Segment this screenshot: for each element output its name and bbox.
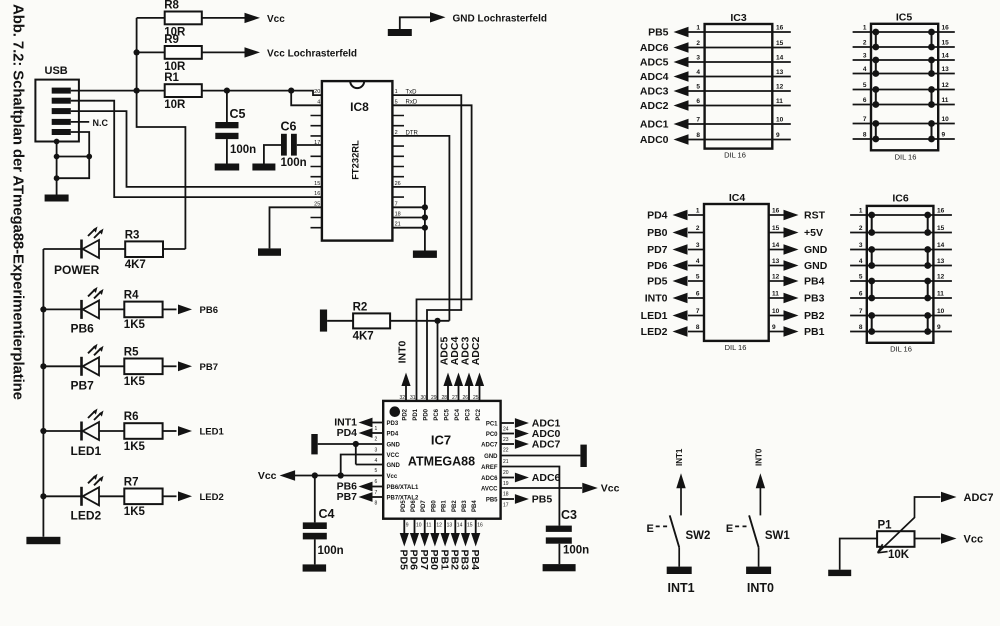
svg-text:11: 11 bbox=[772, 291, 779, 298]
svg-text:PC6: PC6 bbox=[434, 408, 440, 420]
capacitor C6 bbox=[264, 120, 322, 169]
connector IC6 bbox=[850, 193, 952, 354]
svg-text:PB3: PB3 bbox=[462, 500, 468, 512]
wire R4 to PB6 arrow bbox=[163, 308, 177, 310]
ground C4 bbox=[303, 564, 327, 571]
svg-text:INT0: INT0 bbox=[397, 340, 409, 363]
svg-text:PB2: PB2 bbox=[804, 310, 825, 322]
resistor R3 bbox=[125, 229, 163, 271]
Vcc Lochrasterfeld arrow bbox=[245, 47, 261, 57]
IC7 bottom pin names/numbers bbox=[401, 500, 483, 529]
junction USB gnd b bbox=[54, 154, 60, 160]
svg-text:RST: RST bbox=[804, 210, 826, 222]
svg-text:ADC6: ADC6 bbox=[481, 476, 498, 482]
svg-text:INT1: INT1 bbox=[675, 448, 684, 466]
svg-text:PD5: PD5 bbox=[401, 500, 407, 512]
svg-text:PB5: PB5 bbox=[648, 27, 669, 39]
svg-text:3: 3 bbox=[696, 242, 700, 249]
svg-text:Abb. 7.2: Schaltplan der ATmeg: Abb. 7.2: Schaltplan der ATmega88-Experi… bbox=[10, 4, 27, 400]
node PB5 arrow right bbox=[501, 494, 553, 506]
svg-text:15: 15 bbox=[942, 40, 950, 47]
node PB4 arrow down bbox=[469, 519, 481, 570]
svg-text:PC4: PC4 bbox=[455, 408, 461, 420]
resistor R9 bbox=[137, 34, 357, 73]
wire bus to PB6 led bbox=[43, 308, 81, 310]
svg-text:ADC5: ADC5 bbox=[640, 57, 669, 69]
wire R7 to LED2 arrow bbox=[163, 495, 177, 497]
wire R3 to Vcc bus bbox=[163, 248, 185, 250]
node PB3 arrow down bbox=[459, 519, 471, 570]
svg-text:13: 13 bbox=[772, 258, 780, 265]
wire USB 5V to R1 bbox=[71, 90, 165, 92]
node PD6 arrow down bbox=[408, 519, 420, 570]
node PD4 arrow bbox=[337, 427, 384, 439]
svg-text:PD5: PD5 bbox=[398, 550, 410, 571]
svg-text:PD1: PD1 bbox=[413, 408, 419, 420]
svg-text:GND: GND bbox=[387, 443, 401, 449]
wire Vcc to IC8 pin4 bbox=[291, 91, 322, 106]
node PD7 arrow down bbox=[418, 519, 430, 570]
svg-text:ADC6: ADC6 bbox=[640, 42, 669, 54]
node PB0 arrow down bbox=[428, 519, 440, 570]
node ADC5 arrow up bbox=[439, 337, 453, 401]
svg-text:3: 3 bbox=[863, 53, 867, 60]
svg-text:27: 27 bbox=[452, 395, 458, 401]
svg-text:LED2: LED2 bbox=[200, 492, 224, 503]
svg-text:1K5: 1K5 bbox=[124, 319, 146, 331]
svg-text:Vcc: Vcc bbox=[258, 470, 277, 482]
svg-text:PB1: PB1 bbox=[438, 550, 450, 571]
svg-text:ADC1: ADC1 bbox=[640, 119, 669, 131]
svg-text:PB3: PB3 bbox=[804, 293, 825, 305]
svg-text:PD7: PD7 bbox=[647, 244, 668, 256]
Vcc arrow bbox=[245, 13, 261, 23]
svg-text:VCC: VCC bbox=[387, 453, 400, 459]
svg-text:4: 4 bbox=[696, 69, 700, 76]
wire AREF to C3 bbox=[501, 467, 560, 526]
svg-text:17: 17 bbox=[314, 140, 320, 146]
svg-text:15: 15 bbox=[937, 225, 945, 232]
svg-text:15: 15 bbox=[467, 523, 473, 529]
svg-text:9: 9 bbox=[937, 324, 941, 331]
node ADC6 arrow right bbox=[501, 472, 561, 484]
svg-text:22: 22 bbox=[503, 447, 509, 453]
svg-text:ADC2: ADC2 bbox=[470, 337, 482, 366]
svg-text:9: 9 bbox=[772, 324, 776, 331]
svg-text:PC2: PC2 bbox=[476, 408, 482, 420]
node Vcc arrow at P1 bbox=[915, 533, 984, 545]
resistor R2 bbox=[353, 301, 391, 342]
svg-text:10R: 10R bbox=[164, 61, 186, 73]
svg-text:10: 10 bbox=[942, 116, 950, 123]
svg-text:11: 11 bbox=[426, 523, 431, 529]
svg-text:5: 5 bbox=[696, 274, 700, 281]
svg-text:ADC3: ADC3 bbox=[640, 86, 669, 98]
svg-text:12: 12 bbox=[776, 84, 784, 91]
svg-text:8: 8 bbox=[375, 500, 378, 506]
junction bus/PB7 bbox=[40, 363, 46, 369]
node ADC7 arrow bbox=[941, 492, 993, 504]
svg-text:PB4: PB4 bbox=[472, 500, 478, 512]
svg-text:5: 5 bbox=[375, 468, 378, 474]
svg-text:100n: 100n bbox=[230, 144, 256, 156]
junction Vcc/C4 bbox=[312, 472, 318, 478]
wire bus to PB7 led bbox=[43, 365, 81, 367]
node PB1 arrow down bbox=[438, 519, 450, 570]
svg-text:R2: R2 bbox=[353, 301, 368, 313]
svg-text:4: 4 bbox=[375, 458, 378, 464]
wire USB D- to IC8 pin16 bbox=[71, 101, 322, 197]
svg-text:1: 1 bbox=[375, 426, 378, 432]
ground rail stub at IC7 GND bbox=[311, 434, 317, 454]
svg-text:16: 16 bbox=[477, 523, 483, 529]
svg-text:USB: USB bbox=[45, 65, 68, 77]
LED PB6 bbox=[71, 287, 104, 336]
capacitor C4 bbox=[303, 476, 344, 565]
svg-text:11: 11 bbox=[937, 291, 944, 298]
wire USB shield/GND net bbox=[57, 132, 90, 195]
svg-text:2: 2 bbox=[859, 225, 863, 232]
svg-text:R5: R5 bbox=[124, 347, 139, 359]
svg-text:PD7: PD7 bbox=[418, 550, 430, 571]
svg-text:4: 4 bbox=[859, 258, 863, 265]
connector IC4 bbox=[641, 192, 828, 352]
LED PB7 bbox=[71, 344, 104, 393]
svg-text:PB1: PB1 bbox=[442, 500, 448, 512]
svg-text:PB1: PB1 bbox=[804, 326, 825, 338]
potentiometer P1 bbox=[840, 497, 941, 570]
svg-text:PD4: PD4 bbox=[387, 432, 399, 438]
IC7 right pin names/numbers bbox=[481, 422, 509, 509]
wire USB D+ to IC8 pin15 bbox=[71, 111, 322, 187]
node ADC2 arrow up bbox=[470, 337, 484, 401]
junction reset net bbox=[434, 318, 440, 324]
svg-text:DIL 16: DIL 16 bbox=[725, 343, 747, 352]
IC8 right pin numbers bbox=[395, 89, 419, 228]
svg-text:30: 30 bbox=[420, 395, 426, 401]
svg-text:ADC0: ADC0 bbox=[640, 134, 669, 146]
svg-text:PB6: PB6 bbox=[71, 322, 95, 336]
svg-text:8: 8 bbox=[859, 324, 863, 331]
LED LED2 bbox=[71, 474, 104, 523]
svg-text:PD3: PD3 bbox=[387, 421, 399, 427]
svg-text:PB7: PB7 bbox=[71, 379, 95, 393]
node N.C bbox=[71, 118, 109, 128]
svg-text:16: 16 bbox=[937, 208, 945, 215]
node PB7 arrow bbox=[337, 491, 384, 503]
wire bus to LED1 led bbox=[43, 430, 81, 432]
wire R6 to LED1 arrow bbox=[163, 430, 177, 432]
svg-text:E: E bbox=[726, 523, 733, 535]
svg-text:LED1: LED1 bbox=[641, 310, 668, 322]
wire Vcc to IC8 pin20 bbox=[291, 91, 322, 96]
svg-text:4K7: 4K7 bbox=[125, 259, 146, 271]
svg-text:12: 12 bbox=[436, 523, 442, 529]
svg-text:LED1: LED1 bbox=[200, 427, 225, 438]
svg-text:16: 16 bbox=[776, 25, 784, 32]
svg-text:100n: 100n bbox=[563, 545, 589, 557]
LED POWER bbox=[54, 227, 104, 278]
wire POWER led to R3 bbox=[99, 248, 125, 250]
svg-text:16: 16 bbox=[314, 191, 320, 197]
wire R2 to reset net bbox=[390, 320, 449, 322]
svg-text:28: 28 bbox=[441, 395, 447, 401]
svg-text:PD6: PD6 bbox=[647, 260, 668, 272]
svg-text:10: 10 bbox=[416, 523, 422, 529]
junction USB gnd d bbox=[54, 175, 60, 181]
svg-text:N.C: N.C bbox=[93, 118, 109, 128]
wire R5 to PB7 arrow bbox=[163, 365, 177, 367]
svg-text:GND: GND bbox=[484, 454, 498, 460]
svg-text:1K5: 1K5 bbox=[124, 441, 146, 453]
svg-text:4: 4 bbox=[696, 258, 700, 265]
node PD5 arrow down bbox=[398, 519, 410, 570]
svg-text:PD4: PD4 bbox=[337, 427, 358, 439]
svg-text:IC7: IC7 bbox=[431, 433, 451, 448]
svg-text:PC5: PC5 bbox=[445, 408, 451, 420]
junction pin18 bbox=[422, 214, 428, 220]
svg-text:6: 6 bbox=[696, 98, 700, 105]
svg-text:PD6: PD6 bbox=[408, 550, 420, 571]
svg-text:9: 9 bbox=[406, 523, 409, 529]
svg-text:PD0: PD0 bbox=[424, 408, 430, 420]
svg-text:PB7: PB7 bbox=[200, 362, 218, 373]
svg-text:1: 1 bbox=[696, 208, 700, 215]
svg-text:13: 13 bbox=[937, 258, 945, 265]
svg-text:31: 31 bbox=[410, 395, 416, 401]
svg-text:26: 26 bbox=[462, 395, 468, 401]
svg-text:6: 6 bbox=[863, 97, 867, 104]
op-amp U IC8 FT232RL body bbox=[322, 81, 393, 241]
IC7 left pin names/numbers bbox=[375, 421, 420, 506]
resistor R8 bbox=[137, 0, 286, 38]
resistor R1 bbox=[164, 72, 202, 111]
IC U7 ATMEGA88 body bbox=[383, 401, 500, 519]
IC8 left pin numbers bbox=[314, 89, 320, 207]
svg-text:INT0: INT0 bbox=[754, 448, 763, 466]
junction Vcc/pin4 bbox=[338, 472, 344, 478]
wire LED2 led to R7 bbox=[99, 495, 124, 497]
svg-text:2: 2 bbox=[375, 436, 378, 442]
svg-text:21: 21 bbox=[503, 459, 509, 465]
svg-text:PB0: PB0 bbox=[431, 500, 437, 512]
svg-text:13: 13 bbox=[776, 69, 784, 76]
svg-text:8: 8 bbox=[696, 132, 700, 139]
svg-text:PD7: PD7 bbox=[421, 500, 427, 512]
svg-text:3: 3 bbox=[859, 242, 863, 249]
junction USB gnd a bbox=[54, 139, 60, 145]
junction bus/PB6 bbox=[40, 306, 46, 312]
svg-text:14: 14 bbox=[937, 242, 945, 249]
svg-text:5: 5 bbox=[859, 274, 863, 281]
svg-text:11: 11 bbox=[776, 98, 783, 105]
svg-text:PC1: PC1 bbox=[486, 422, 498, 428]
ground C5 bbox=[215, 164, 240, 171]
svg-text:AREF: AREF bbox=[481, 465, 498, 471]
junction gnd pins bbox=[353, 441, 359, 447]
svg-text:PB2: PB2 bbox=[449, 550, 461, 571]
svg-text:16: 16 bbox=[772, 208, 780, 215]
svg-text:7: 7 bbox=[375, 490, 378, 496]
svg-text:10R: 10R bbox=[164, 99, 186, 111]
svg-text:7: 7 bbox=[696, 308, 700, 315]
capacitor C3 bbox=[546, 508, 589, 564]
svg-text:10: 10 bbox=[937, 308, 945, 315]
node ADC1 arrow right bbox=[501, 418, 561, 430]
svg-text:29: 29 bbox=[431, 395, 437, 401]
svg-text:+5V: +5V bbox=[804, 227, 823, 239]
connector USB bbox=[35, 65, 79, 142]
svg-text:INT0: INT0 bbox=[645, 293, 668, 305]
wire IC7 VCC pin4 bbox=[341, 455, 384, 476]
svg-text:7: 7 bbox=[696, 117, 700, 124]
svg-text:PC3: PC3 bbox=[466, 408, 472, 420]
resistor R8 bbox=[164, 0, 202, 38]
ground P1 bbox=[828, 570, 851, 576]
svg-text:9: 9 bbox=[776, 132, 780, 139]
svg-text:E: E bbox=[647, 523, 654, 535]
svg-text:SW1: SW1 bbox=[765, 530, 791, 542]
svg-text:PB4: PB4 bbox=[469, 550, 481, 571]
svg-text:4: 4 bbox=[863, 66, 867, 73]
svg-text:R8: R8 bbox=[164, 0, 179, 12]
svg-text:PB6/XTAL1: PB6/XTAL1 bbox=[387, 485, 420, 491]
svg-text:PD6: PD6 bbox=[411, 500, 417, 512]
svg-text:1: 1 bbox=[859, 208, 863, 215]
svg-text:ATMEGA88: ATMEGA88 bbox=[408, 455, 475, 469]
svg-text:24: 24 bbox=[503, 426, 509, 432]
svg-text:R7: R7 bbox=[124, 477, 139, 489]
svg-text:15: 15 bbox=[776, 40, 784, 47]
svg-text:Vcc: Vcc bbox=[267, 14, 285, 25]
node LED2 arrow bbox=[178, 491, 224, 502]
svg-text:GND: GND bbox=[804, 244, 828, 256]
svg-text:3: 3 bbox=[696, 55, 700, 62]
svg-text:100n: 100n bbox=[281, 157, 307, 169]
resistor R7 bbox=[124, 477, 163, 519]
svg-text:6: 6 bbox=[859, 291, 863, 298]
svg-text:14: 14 bbox=[457, 523, 463, 529]
wire PB6 led to R4 bbox=[99, 308, 124, 310]
node ADC4 arrow up bbox=[449, 337, 463, 401]
svg-text:14: 14 bbox=[942, 53, 950, 60]
svg-text:SW2: SW2 bbox=[686, 530, 711, 542]
svg-text:PD2: PD2 bbox=[403, 408, 409, 420]
svg-text:12: 12 bbox=[772, 274, 780, 281]
svg-text:PB5: PB5 bbox=[532, 494, 553, 506]
svg-text:ADC7: ADC7 bbox=[481, 443, 498, 449]
wire rail to R2 bbox=[327, 320, 353, 322]
node ADC0 arrow right bbox=[501, 428, 561, 440]
svg-text:C6: C6 bbox=[281, 120, 297, 134]
wire bus to POWER led bbox=[43, 248, 81, 250]
wire IC8 TxD to IC7 PD0 bbox=[392, 95, 461, 401]
svg-text:IC6: IC6 bbox=[892, 193, 909, 205]
svg-text:Vcc Lochrasterfeld: Vcc Lochrasterfeld bbox=[267, 48, 357, 59]
capacitor C5 bbox=[215, 91, 256, 164]
svg-text:PD4: PD4 bbox=[647, 210, 668, 222]
svg-text:1: 1 bbox=[696, 25, 700, 32]
svg-text:Vcc: Vcc bbox=[387, 474, 398, 480]
svg-text:AVCC: AVCC bbox=[481, 487, 498, 493]
junction pin7 bbox=[422, 204, 428, 210]
svg-text:25: 25 bbox=[473, 395, 479, 401]
IC8 left pin stubs bbox=[311, 116, 322, 228]
svg-text:IC5: IC5 bbox=[896, 12, 913, 24]
svg-text:15: 15 bbox=[314, 181, 320, 187]
svg-text:LED1: LED1 bbox=[71, 444, 102, 458]
resistor R6 bbox=[124, 411, 163, 453]
node Vcc arrow (AVCC) bbox=[501, 483, 620, 495]
svg-text:19: 19 bbox=[503, 481, 509, 487]
svg-text:LED2: LED2 bbox=[641, 326, 668, 338]
svg-text:1: 1 bbox=[863, 25, 867, 32]
wire LED gnd bus bbox=[42, 249, 44, 537]
svg-text:32: 32 bbox=[399, 395, 405, 401]
ground IC8 right bbox=[413, 251, 437, 258]
svg-text:5: 5 bbox=[696, 84, 700, 91]
svg-text:PB6: PB6 bbox=[200, 305, 218, 316]
node LED1 arrow bbox=[178, 426, 225, 437]
svg-text:DIL 16: DIL 16 bbox=[895, 153, 917, 162]
wire IC7 GND pin21 bbox=[501, 455, 581, 457]
svg-text:4K7: 4K7 bbox=[353, 330, 374, 342]
svg-text:ADC7: ADC7 bbox=[964, 492, 994, 504]
svg-text:INT0: INT0 bbox=[747, 581, 774, 595]
switch SW2 bbox=[647, 448, 711, 595]
connector IC5 bbox=[853, 12, 955, 162]
svg-text:3: 3 bbox=[375, 447, 378, 453]
node PB6 arrow bbox=[178, 305, 218, 316]
svg-text:9: 9 bbox=[942, 132, 946, 139]
svg-text:R1: R1 bbox=[164, 72, 179, 84]
svg-text:15: 15 bbox=[772, 225, 780, 232]
ground USB bbox=[45, 195, 69, 202]
svg-text:100n: 100n bbox=[318, 545, 344, 557]
svg-text:ADC4: ADC4 bbox=[640, 71, 669, 83]
svg-text:IC4: IC4 bbox=[729, 192, 746, 204]
svg-text:C4: C4 bbox=[319, 507, 335, 521]
svg-text:13: 13 bbox=[942, 66, 950, 73]
svg-text:DIL 16: DIL 16 bbox=[890, 345, 912, 354]
wire IC7 GND pin5 bbox=[356, 444, 383, 465]
LED LED1 bbox=[71, 409, 104, 459]
svg-text:ADC7: ADC7 bbox=[532, 439, 561, 451]
svg-text:GND Lochrasterfeld: GND Lochrasterfeld bbox=[453, 13, 547, 24]
wire IC8 DTR down bbox=[392, 136, 449, 321]
svg-text:GND: GND bbox=[387, 463, 401, 469]
wire IC7 GND pin3 bbox=[318, 443, 384, 445]
svg-text:1K5: 1K5 bbox=[124, 506, 146, 518]
svg-text:ADC2: ADC2 bbox=[640, 100, 669, 112]
svg-text:2: 2 bbox=[863, 40, 867, 47]
node INT1 arrow (IC7 PD3) bbox=[334, 417, 383, 429]
svg-text:8: 8 bbox=[863, 132, 867, 139]
svg-text:IC8: IC8 bbox=[350, 100, 369, 114]
svg-text:7: 7 bbox=[863, 116, 867, 123]
svg-text:11: 11 bbox=[942, 97, 949, 104]
svg-text:IC3: IC3 bbox=[730, 12, 747, 24]
svg-text:POWER: POWER bbox=[54, 263, 100, 277]
power rail stub at R2 bbox=[320, 310, 327, 332]
ground IC8 left bbox=[258, 248, 281, 255]
svg-text:ADC6: ADC6 bbox=[532, 472, 561, 484]
switch SW1 bbox=[726, 448, 791, 595]
svg-text:C5: C5 bbox=[230, 107, 246, 121]
ground C3 bbox=[543, 564, 576, 571]
wire PB7 led to R5 bbox=[99, 365, 124, 367]
junction bus/LED1 bbox=[40, 428, 46, 434]
